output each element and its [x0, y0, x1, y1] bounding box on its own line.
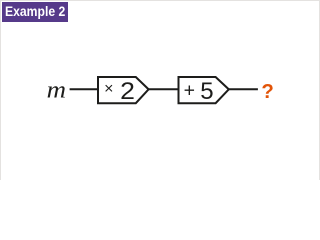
svg-text:m: m [47, 77, 66, 103]
svg-text:+: + [184, 80, 195, 102]
function machine diagram [0, 0, 320, 180]
svg-text:×: × [104, 81, 113, 98]
wire from machine 2 to output [229, 88, 258, 90]
wire from m to machine 1 [70, 88, 98, 90]
svg-text:5: 5 [200, 78, 213, 105]
border frame top [0, 0, 320, 1]
wire between machines [149, 88, 179, 90]
machine box 1 (pentagon × 2) [98, 77, 149, 103]
border frame left [0, 0, 1, 180]
label "Example 2" [2, 2, 68, 22]
machine box 2 (pentagon + 5) [179, 77, 229, 103]
svg-text:?: ? [261, 81, 273, 103]
svg-text:2: 2 [120, 78, 135, 105]
border frame right [319, 0, 320, 180]
